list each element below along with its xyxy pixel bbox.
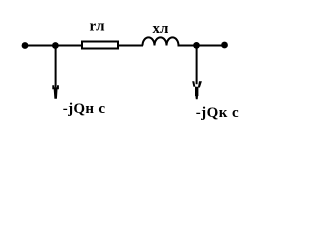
svg-text:-jQн c: -jQн c	[63, 101, 106, 117]
node: right terminal	[221, 42, 228, 49]
wire segment: resistor to inductor	[118, 45, 143, 47]
node: right junction	[193, 42, 200, 49]
arrow: right shunt (charging power)	[192, 81, 202, 99]
wire segment: inductor to right end node	[178, 45, 225, 47]
wire: right shunt stem	[196, 45, 198, 84]
arrow: left shunt (charging power)	[52, 85, 59, 99]
svg-text:xл: xл	[153, 21, 170, 37]
node: left junction	[52, 42, 59, 49]
svg-text:rл: rл	[90, 19, 106, 35]
wire: left shunt stem	[55, 46, 57, 88]
wire segment: left node to resistor	[25, 45, 82, 47]
node: left terminal	[22, 42, 29, 49]
svg-text:-jQк c: -jQк c	[196, 105, 239, 121]
resistor rл	[82, 42, 118, 49]
inductor xл	[143, 37, 179, 45]
